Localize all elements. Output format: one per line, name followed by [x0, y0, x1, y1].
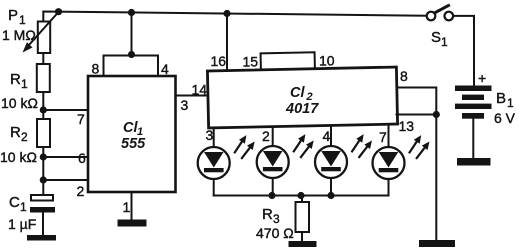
wire rail from switch to battery — [454, 16, 475, 86]
potentiometer P1 — [23, 12, 59, 53]
svg-text:C: C — [9, 194, 20, 211]
LED D2 — [257, 134, 314, 195]
resistor R3 — [296, 202, 310, 232]
svg-text:1: 1 — [20, 200, 27, 214]
wire pin 1 — [131, 192, 133, 220]
svg-text:1: 1 — [19, 13, 26, 27]
node rail-4017 pin16 junction — [223, 10, 230, 17]
wire LED cathode bus — [214, 195, 389, 197]
IC CI2 4017 counter box — [207, 51, 397, 128]
wire pin 6 — [43, 156, 88, 158]
svg-text:6: 6 — [78, 150, 86, 166]
node pin2 junction — [40, 176, 47, 183]
svg-text:+: + — [478, 70, 486, 86]
svg-text:P: P — [8, 7, 18, 24]
wire pin 4 stub LED3 — [330, 127, 332, 151]
svg-text:1 µF: 1 µF — [8, 216, 36, 232]
wire to right ground — [435, 115, 437, 241]
wire C1 to ground — [42, 213, 44, 236]
wire R1 to R2 — [42, 92, 44, 119]
wire bus to R3 — [301, 196, 303, 203]
svg-text:4: 4 — [323, 128, 331, 144]
svg-text:16: 16 — [211, 53, 227, 69]
svg-text:R: R — [262, 206, 273, 223]
wire pin 3 to pin 14 — [176, 95, 210, 97]
svg-text:3: 3 — [273, 212, 280, 226]
svg-text:8: 8 — [400, 68, 408, 84]
ground 555 pin1 — [118, 220, 147, 227]
svg-text:470 Ω: 470 Ω — [256, 225, 294, 241]
svg-text:1: 1 — [441, 35, 448, 49]
resistor R2 — [37, 119, 50, 147]
wire pin 2 stub LED2 — [272, 128, 274, 151]
svg-text:S: S — [431, 29, 441, 46]
LED D1 — [198, 135, 255, 195]
svg-text:2: 2 — [262, 128, 270, 144]
capacitor C1 — [30, 195, 55, 213]
wire pin 13 — [397, 114, 437, 116]
svg-text:R: R — [10, 124, 21, 141]
node rail-P1 wiper junction — [55, 8, 62, 15]
node bus R3 — [297, 192, 304, 199]
resistor R1 — [37, 64, 50, 92]
node bracket junction — [128, 51, 135, 58]
wire pin 2 — [43, 179, 88, 181]
svg-text:555: 555 — [121, 136, 146, 152]
wire rail to bracket — [131, 13, 133, 56]
node pin6 junction — [40, 153, 47, 160]
svg-text:3: 3 — [206, 127, 214, 143]
wire pin 7 stub LED4 — [388, 126, 390, 152]
wire battery to ground — [472, 119, 474, 158]
node pin13 junction — [433, 111, 440, 118]
ground battery — [457, 158, 491, 166]
wire R3 to ground — [301, 232, 303, 241]
LED D3 — [315, 134, 372, 195]
svg-text:7: 7 — [379, 129, 387, 145]
wire 555 pins 8-4 bracket — [104, 56, 159, 77]
wire R2 to C1 — [42, 147, 44, 195]
wire P1 to R1 — [42, 53, 44, 64]
svg-text:1: 1 — [507, 96, 514, 110]
svg-text:14: 14 — [192, 82, 208, 98]
svg-text:4: 4 — [161, 61, 169, 77]
switch S1 — [427, 6, 453, 21]
wire pin 8 — [397, 88, 437, 115]
svg-text:3: 3 — [181, 97, 189, 113]
node bus LED3 — [327, 192, 334, 199]
svg-text:10 kΩ: 10 kΩ — [1, 95, 38, 111]
svg-text:1 MΩ: 1 MΩ — [2, 27, 36, 43]
svg-text:1: 1 — [123, 199, 131, 215]
IC CI1 555 timer box — [88, 76, 176, 192]
svg-text:Cl: Cl — [290, 85, 305, 101]
svg-text:2: 2 — [77, 183, 85, 199]
svg-text:6 V: 6 V — [494, 110, 516, 126]
svg-text:R: R — [10, 71, 21, 88]
svg-text:13: 13 — [399, 118, 415, 134]
node bus LED2 — [268, 192, 275, 199]
svg-text:2: 2 — [21, 130, 28, 144]
wire 4017 pins 15-10 bracket — [261, 52, 315, 70]
svg-text:4017: 4017 — [285, 101, 319, 117]
node rail-555 junction — [128, 9, 135, 16]
ground 4017 — [419, 240, 455, 247]
wire top supply rail — [43, 12, 426, 22]
ground R3 — [289, 241, 317, 247]
wire pin 7 — [43, 109, 88, 111]
ground C1 — [27, 235, 56, 241]
svg-text:10 kΩ: 10 kΩ — [0, 149, 37, 165]
svg-text:10: 10 — [319, 53, 335, 69]
battery B1 — [455, 86, 492, 119]
LED D4 — [373, 135, 430, 195]
svg-text:1: 1 — [21, 77, 28, 91]
svg-text:7: 7 — [77, 111, 85, 127]
wire pin 3 stub LED1 — [213, 129, 215, 152]
svg-text:8: 8 — [92, 61, 100, 77]
svg-text:B: B — [496, 90, 506, 107]
svg-text:15: 15 — [243, 54, 259, 70]
wire rail to pin 16 — [226, 14, 228, 72]
node pin7 junction — [40, 106, 47, 113]
